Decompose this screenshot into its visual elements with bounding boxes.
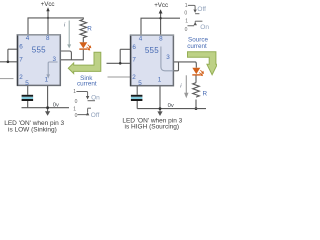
svg-text:R: R [87, 26, 92, 33]
wire: pin3 lower stub (right) [174, 62, 179, 70]
junction dot (right resistor) [195, 107, 198, 110]
+Vcc arrow (left) [47, 11, 49, 35]
LED D2 (right) [192, 68, 200, 74]
wire pin7 (right) [107, 62, 131, 64]
waveform 1 Off (right) [188, 5, 195, 9]
svg-text:Off: Off [91, 112, 100, 119]
svg-text:1: 1 [73, 89, 76, 95]
capacitor C2 (right) [136, 86, 138, 95]
green source-current arrow [188, 52, 218, 75]
green sink-current arrow [68, 52, 101, 73]
ground rail 0v (left) [22, 107, 70, 109]
LED D1 (left) [79, 42, 87, 48]
svg-text:Off: Off [197, 6, 206, 13]
svg-text:1: 1 [185, 18, 188, 24]
svg-text:5: 5 [138, 80, 142, 87]
wire: pin3 to LED (right) [174, 62, 197, 68]
wire pin6 (right) [120, 48, 131, 50]
wire resistor to rail (right) [195, 100, 197, 109]
wire: Vcc rail + pin4 drop (left) [28, 18, 83, 35]
svg-text:7: 7 [132, 57, 136, 64]
svg-text:4: 4 [139, 35, 143, 42]
wire pin2 stub (left) [0, 78, 14, 80]
svg-text:current: current [77, 81, 97, 88]
capacitor C1 (left) [27, 85, 29, 94]
ground arrow (right) [159, 86, 161, 112]
waveform 2 On (right) [195, 20, 202, 22]
svg-text:3: 3 [166, 54, 170, 61]
svg-text:0: 0 [185, 27, 188, 33]
LED D2 light arrows (right) [199, 70, 203, 75]
svg-text:5: 5 [25, 80, 29, 87]
svg-text:1: 1 [73, 106, 76, 112]
wire: Vcc rail + pin4 drop (right) [141, 18, 180, 35]
wire pin2 stub (right) [108, 76, 131, 78]
svg-text:6: 6 [132, 44, 136, 51]
current i arrow (right) [185, 75, 187, 93]
svg-text:8: 8 [159, 35, 163, 42]
wire bus 6-7 (left) [7, 49, 9, 62]
svg-text:0: 0 [75, 113, 78, 119]
waveform 2 Off (left) [88, 107, 91, 109]
wire LED to resistor (right) [195, 76, 197, 83]
junction dot (right gnd) [159, 107, 162, 110]
svg-text:2: 2 [19, 74, 23, 81]
ground rail 0v (right) [137, 108, 206, 110]
svg-text:is LOW (Sinking): is LOW (Sinking) [8, 127, 57, 134]
svg-text:R: R [203, 91, 208, 98]
+Vcc arrow (right) [160, 13, 162, 35]
svg-text:1: 1 [158, 77, 162, 84]
svg-text:current: current [187, 43, 207, 50]
wire pin7 (left) [0, 61, 18, 63]
svg-text:555: 555 [145, 46, 159, 55]
svg-text:0v: 0v [168, 103, 174, 109]
svg-text:+Vcc: +Vcc [41, 1, 55, 8]
svg-text:1: 1 [185, 3, 188, 9]
resistor R (left) [80, 19, 87, 42]
svg-text:On: On [200, 24, 209, 31]
internal current arrow (right) [161, 47, 174, 71]
ground arrow (left) [47, 85, 49, 111]
svg-text:2: 2 [132, 74, 136, 81]
LED D1 light arrows (left) [87, 45, 91, 50]
svg-text:6: 6 [19, 44, 23, 51]
svg-text:7: 7 [19, 57, 23, 64]
op IC U1 555 (left) [18, 35, 61, 86]
junction dot (right bus) [119, 62, 122, 65]
wire: pin3 upper stub (left) [60, 51, 71, 60]
svg-text:On: On [91, 94, 100, 101]
svg-text:555: 555 [32, 46, 46, 55]
wire pin6 (left) [8, 48, 18, 50]
junction dot (left bus) [7, 61, 10, 64]
internal current arrow (left) [48, 62, 57, 75]
current i arrow (left) [68, 21, 70, 45]
wire bus 6-7 (right) [119, 49, 121, 63]
junction dot (left gnd) [46, 106, 49, 109]
svg-text:is HIGH (Sourcing): is HIGH (Sourcing) [125, 124, 180, 131]
op IC U2 555 (right) [131, 35, 174, 86]
svg-text:0: 0 [75, 99, 78, 105]
waveform 1 On (left) [76, 92, 87, 97]
svg-text:0: 0 [184, 10, 187, 16]
resistor R (right) [193, 83, 200, 97]
svg-text:+Vcc: +Vcc [154, 2, 168, 9]
wire: pin3 to LED (left) [60, 50, 83, 60]
svg-text:0v: 0v [53, 102, 59, 108]
svg-text:4: 4 [26, 35, 30, 42]
svg-text:8: 8 [46, 35, 50, 42]
